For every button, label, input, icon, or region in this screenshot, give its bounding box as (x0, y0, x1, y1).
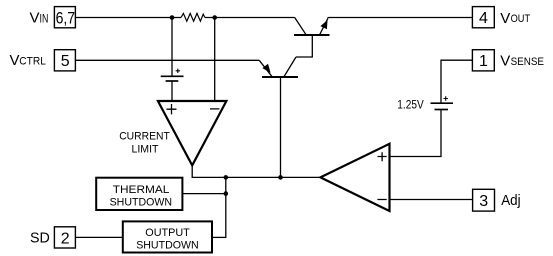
svg-text:4: 4 (479, 10, 488, 27)
svg-text:V: V (10, 52, 20, 69)
svg-text:SHUTDOWN: SHUTDOWN (136, 240, 199, 252)
svg-text:Adj: Adj (501, 192, 520, 209)
svg-text:3: 3 (479, 193, 488, 210)
pin box 1 (VSENSE) (472, 50, 494, 71)
svg-text:V: V (30, 10, 40, 27)
node junction at VIN/current-limit offset branch (170, 15, 175, 20)
transistor Q2 (PNP driver) emitter lead with arrow (259, 60, 272, 76)
svg-text:THERMAL: THERMAL (113, 184, 170, 196)
wire reference up to VSENSE (441, 60, 473, 103)
svg-text:2: 2 (61, 230, 70, 247)
svg-text:IN: IN (40, 13, 49, 25)
wire battery to current limit + input (171, 81, 173, 101)
node junction Q2 base (278, 175, 283, 180)
svg-text:SHUTDOWN: SHUTDOWN (110, 197, 173, 209)
svg-text:6,7: 6,7 (56, 9, 76, 27)
transistor Q1 base lead (296, 35, 312, 57)
svg-text:5: 5 (61, 53, 70, 70)
wire error amp - input to Adj pin (391, 199, 473, 201)
pin box 2 (SD) (54, 227, 75, 248)
svg-text:SD: SD (30, 230, 50, 247)
node junction after resistor (212, 15, 217, 20)
wire resistor to Q1 collector (205, 17, 295, 19)
battery 1.25V reference (431, 96, 454, 109)
wire current limit output down (191, 165, 193, 177)
label CURRENT LIMIT (119, 130, 170, 155)
box OUTPUT SHUTDOWN (123, 221, 212, 252)
wire output bus to error amp (192, 176, 321, 178)
wire sense node down to current limit - input (214, 18, 216, 102)
transistor Q1 emitter lead with arrow (320, 18, 329, 35)
wire shutdown bus vertical (225, 177, 227, 237)
svg-text:1: 1 (479, 53, 488, 70)
transistor Q2 base lead (to error amp output node) (280, 77, 282, 177)
node junction shutdown bus (224, 175, 229, 180)
wire Q1 emitter to VOUT pin (328, 17, 473, 19)
svg-text:CURRENT: CURRENT (119, 130, 170, 142)
svg-text:SENSE: SENSE (511, 56, 544, 68)
transistor Q2 base bar (262, 76, 298, 78)
wire VIN node down to offset battery (171, 18, 173, 77)
pin label VIN (30, 10, 49, 27)
transistor Q1 (NPN pass) collector lead (295, 18, 306, 35)
battery offset source (current limit reference) (161, 69, 184, 81)
pin box 5 (VCTRL) (54, 50, 75, 71)
wire output shutdown to bus (212, 236, 226, 238)
svg-text:LIMIT: LIMIT (132, 143, 160, 155)
op-amp current limit comparator (158, 101, 227, 165)
wire VCTRL to Q2 emitter (75, 59, 259, 61)
resistor (current sense) (181, 13, 205, 21)
transistor Q1 base bar (294, 34, 330, 36)
svg-text:OUTPUT: OUTPUT (145, 227, 190, 239)
pin box 4 (VOUT) (472, 7, 494, 28)
op-amp error amplifier (320, 144, 389, 211)
svg-text:V: V (500, 53, 510, 70)
wire VIN to resistor (75, 17, 181, 19)
pin box 3 (Adj) (473, 189, 495, 211)
svg-text:V: V (500, 10, 510, 27)
box THERMAL SHUTDOWN (96, 178, 182, 210)
svg-text:1.25V: 1.25V (397, 99, 424, 111)
wire error amp + input to reference (391, 110, 442, 157)
node junction thermal tap (224, 191, 229, 196)
pin label VSENSE (500, 53, 544, 70)
transistor Q2 collector lead (284, 57, 296, 76)
svg-text:CTRL: CTRL (19, 56, 46, 68)
pin label VOUT (500, 10, 530, 27)
pin label VCTRL (10, 52, 46, 69)
wire thermal shutdown to bus (182, 193, 225, 195)
pin box 6,7 (VIN) (54, 7, 75, 28)
wire SD to output shutdown (75, 236, 122, 238)
svg-text:OUT: OUT (511, 13, 531, 25)
